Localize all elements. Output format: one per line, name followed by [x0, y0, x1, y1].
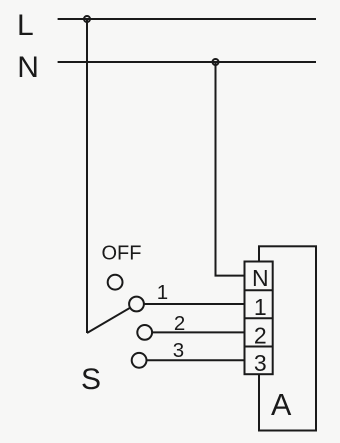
svg-text:A: A [271, 388, 292, 422]
svg-text:1: 1 [254, 294, 267, 320]
terminal divider 2/3 [245, 346, 273, 348]
terminal divider 1/2 [245, 317, 273, 319]
junction on L bus [84, 16, 90, 22]
svg-text:N: N [17, 51, 39, 84]
contact 2 [137, 325, 152, 340]
wire contact2 to terminal 2 [148, 331, 245, 333]
svg-text:S: S [81, 363, 101, 396]
svg-text:3: 3 [254, 350, 267, 376]
junction on N bus [213, 59, 219, 65]
svg-text:2: 2 [254, 322, 267, 348]
wire L feed down to switch pivot [86, 19, 88, 333]
wire L bus [58, 18, 316, 20]
svg-text:1: 1 [157, 281, 168, 304]
wire N feed down and right to terminal N [216, 62, 245, 276]
svg-text:L: L [17, 9, 34, 42]
contact 3 [132, 353, 147, 368]
contact 1 [129, 297, 144, 312]
terminal block outline [245, 262, 273, 375]
wire contact3 to terminal 3 [143, 359, 245, 361]
svg-text:3: 3 [173, 339, 184, 362]
svg-text:N: N [252, 265, 269, 291]
wire contact1 to terminal 1 [140, 303, 245, 305]
wire N bus [58, 61, 316, 63]
svg-text:2: 2 [174, 312, 185, 335]
appliance A outline [259, 246, 316, 430]
contact OFF [108, 275, 123, 290]
switch arm [87, 308, 130, 333]
terminal divider N/1 [245, 289, 273, 291]
svg-text:OFF: OFF [102, 242, 142, 264]
